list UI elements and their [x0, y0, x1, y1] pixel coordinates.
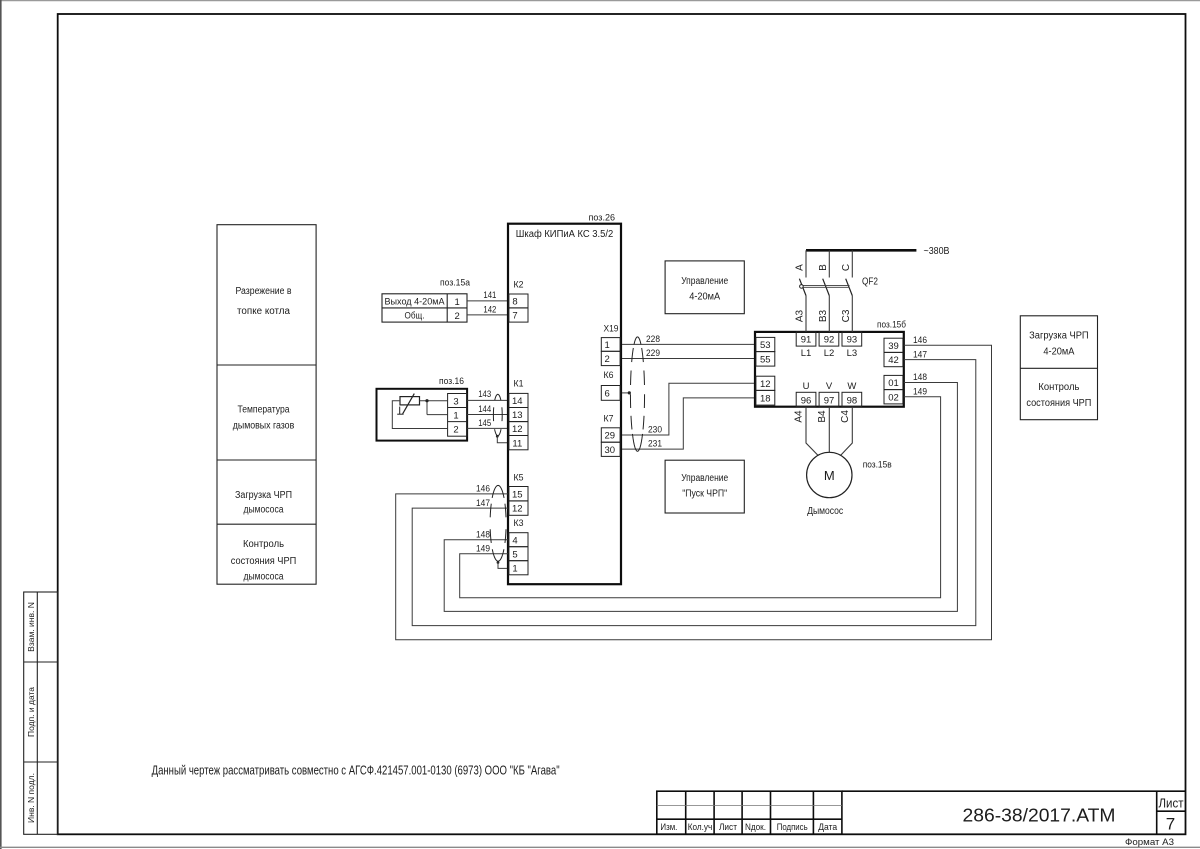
- svg-text:L1: L1: [801, 348, 812, 359]
- svg-text:149: 149: [476, 544, 490, 555]
- wire 230: [622, 383, 755, 435]
- sensor поз.16 block: [377, 389, 468, 441]
- svg-text:поз.15а: поз.15а: [440, 277, 471, 288]
- cable shield ellipse 143-145: [495, 394, 501, 400]
- svg-text:29: 29: [605, 431, 616, 442]
- wire 144: [467, 414, 507, 416]
- wire 143: [467, 399, 507, 401]
- svg-text:230: 230: [648, 425, 662, 436]
- svg-text:14: 14: [512, 396, 523, 407]
- junction dot: [425, 399, 428, 402]
- svg-text:42: 42: [888, 355, 899, 366]
- svg-text:дымососа: дымососа: [244, 572, 284, 583]
- title block main bar: [842, 791, 1186, 834]
- VFD right terminals 39 42 01 02: [884, 338, 903, 404]
- svg-text:147: 147: [476, 498, 490, 509]
- svg-text:V: V: [826, 381, 833, 392]
- page outer border: [0, 0, 1200, 2]
- wire 229: [622, 358, 755, 360]
- svg-text:В3: В3: [818, 309, 829, 322]
- svg-text:Изм.: Изм.: [660, 822, 677, 832]
- svg-text:Взам. инв. N: Взам. инв. N: [26, 602, 36, 652]
- VFD bottom terminals 96 97 98: [796, 392, 862, 406]
- svg-text:~380В: ~380В: [924, 246, 950, 257]
- cable shield ellipse 146-149: [492, 485, 504, 498]
- svg-text:L3: L3: [847, 348, 858, 359]
- VFD поз.15б box: [755, 332, 904, 407]
- svg-text:93: 93: [847, 335, 858, 346]
- svg-text:143: 143: [478, 389, 491, 400]
- svg-text:С4: С4: [840, 410, 851, 423]
- shield drain from K6-6: [622, 392, 629, 394]
- svg-text:Х19: Х19: [604, 323, 619, 334]
- svg-text:147: 147: [913, 349, 927, 360]
- RTD t mark: [397, 407, 403, 415]
- svg-text:Данный чертеж рассматривать со: Данный чертеж рассматривать совместно с …: [152, 764, 560, 778]
- svg-text:Загрузка ЧРП: Загрузка ЧРП: [1029, 331, 1089, 342]
- svg-text:53: 53: [760, 340, 771, 351]
- wire 145: [467, 427, 507, 429]
- box Управление Пуск ЧРП: [665, 460, 744, 513]
- svg-text:К6: К6: [604, 370, 614, 381]
- motor M circle: [807, 452, 852, 497]
- VFD top terminals 91 92 93: [796, 332, 862, 346]
- svg-text:142: 142: [483, 304, 496, 315]
- svg-text:Контроль: Контроль: [1038, 382, 1079, 393]
- svg-text:С3: С3: [841, 309, 852, 322]
- svg-text:Загрузка ЧРП: Загрузка ЧРП: [235, 490, 292, 501]
- svg-text:145: 145: [478, 418, 491, 429]
- svg-text:Инв. N подл.: Инв. N подл.: [26, 773, 36, 823]
- svg-text:97: 97: [824, 395, 835, 406]
- svg-text:К7: К7: [604, 413, 614, 424]
- cabinet Шкаф КИПиА КС 3.5/2: [508, 224, 621, 585]
- signal box column: [217, 225, 316, 585]
- svg-text:Температура: Температура: [238, 404, 290, 415]
- svg-text:топке котла: топке котла: [237, 306, 290, 317]
- shield drain to K3-1: [497, 561, 500, 564]
- svg-text:М: М: [824, 468, 835, 483]
- svg-text:Выход 4-20мА: Выход 4-20мА: [385, 297, 446, 308]
- svg-text:141: 141: [483, 290, 496, 301]
- svg-text:Лист: Лист: [1159, 796, 1184, 811]
- svg-text:1: 1: [605, 340, 610, 351]
- svg-text:А: А: [795, 264, 806, 271]
- svg-text:К5: К5: [514, 472, 524, 483]
- svg-text:Управление: Управление: [681, 276, 728, 287]
- svg-text:Управление: Управление: [681, 473, 728, 484]
- svg-text:149: 149: [913, 386, 927, 397]
- svg-text:231: 231: [648, 439, 662, 450]
- svg-text:поз.26: поз.26: [589, 213, 616, 224]
- svg-text:11: 11: [512, 438, 522, 449]
- signal box divider 1: [217, 364, 316, 366]
- svg-text:4-20мА: 4-20мА: [689, 292, 720, 303]
- wire 149: [460, 397, 941, 598]
- sidebar column boxes: [24, 592, 58, 834]
- svg-text:01: 01: [888, 378, 899, 389]
- svg-text:Шкаф КИПиА КС 3.5/2: Шкаф КИПиА КС 3.5/2: [516, 228, 614, 240]
- svg-text:Кол.уч: Кол.уч: [688, 822, 713, 832]
- RTD terminal strip: [448, 394, 468, 437]
- svg-text:13: 13: [512, 410, 523, 421]
- motor feeder wires: [806, 407, 852, 456]
- svg-text:4: 4: [512, 535, 517, 546]
- svg-text:92: 92: [824, 335, 835, 346]
- svg-text:1: 1: [454, 297, 459, 308]
- svg-text:поз.15в: поз.15в: [863, 460, 892, 471]
- title block table: [657, 791, 842, 834]
- svg-text:поз.15б: поз.15б: [877, 319, 906, 330]
- svg-text:148: 148: [913, 372, 927, 383]
- breaker QF2 blades: [799, 279, 852, 296]
- svg-text:U: U: [803, 381, 810, 392]
- svg-text:Nдок.: Nдок.: [745, 822, 766, 832]
- svg-text:Контроль: Контроль: [243, 539, 284, 550]
- svg-text:286-38/2017.АТМ: 286-38/2017.АТМ: [963, 805, 1116, 826]
- cable shield ellipse 228-231: [634, 337, 641, 345]
- svg-text:А3: А3: [795, 309, 806, 322]
- svg-text:Дата: Дата: [818, 822, 837, 832]
- svg-text:Дымосос: Дымосос: [807, 506, 843, 517]
- svg-text:"Пуск ЧРП": "Пуск ЧРП": [682, 489, 727, 500]
- transmitter поз.15а block: [382, 294, 467, 322]
- svg-text:55: 55: [760, 354, 771, 365]
- box Загрузка ЧРП / Контроль состояния ЧРП: [1020, 316, 1097, 420]
- wire 147: [412, 360, 976, 626]
- svg-text:5: 5: [512, 549, 517, 560]
- svg-text:С: С: [841, 264, 852, 271]
- svg-text:L2: L2: [824, 348, 835, 359]
- wire 142: [467, 314, 507, 316]
- wire 228: [622, 343, 755, 345]
- svg-text:144: 144: [478, 404, 491, 415]
- signal box divider 2: [217, 459, 316, 461]
- svg-text:W: W: [847, 381, 856, 392]
- svg-text:2: 2: [454, 311, 459, 322]
- svg-text:15: 15: [512, 489, 523, 500]
- svg-text:148: 148: [476, 530, 490, 541]
- svg-text:7: 7: [512, 311, 517, 322]
- svg-text:1: 1: [512, 563, 517, 574]
- svg-text:12: 12: [512, 424, 523, 435]
- RTD diagonal stroke: [403, 394, 415, 414]
- svg-text:В: В: [818, 264, 829, 271]
- RTD internal wires: [392, 401, 447, 429]
- svg-text:дымовых газов: дымовых газов: [233, 420, 295, 431]
- svg-text:А4: А4: [794, 410, 805, 423]
- QF2 linkage bar: [801, 285, 850, 287]
- box Управление 4-20мА: [665, 261, 744, 314]
- svg-text:Подп. и дата: Подп. и дата: [26, 687, 36, 737]
- signal box divider 3: [217, 523, 316, 525]
- svg-text:поз.16: поз.16: [439, 376, 464, 387]
- svg-text:Подпись: Подпись: [777, 822, 808, 832]
- shield drain to K1-11: [496, 435, 499, 438]
- svg-text:228: 228: [646, 334, 660, 345]
- svg-text:Разрежение в: Разрежение в: [236, 286, 292, 297]
- wire 231: [622, 398, 755, 449]
- svg-text:229: 229: [646, 348, 660, 359]
- svg-text:состояния ЧРП: состояния ЧРП: [231, 556, 297, 567]
- svg-text:98: 98: [847, 395, 858, 406]
- svg-text:91: 91: [801, 335, 812, 346]
- svg-text:12: 12: [512, 504, 523, 515]
- svg-text:дымососа: дымососа: [244, 505, 284, 516]
- svg-text:30: 30: [605, 445, 616, 456]
- RTD resistor body: [400, 397, 420, 405]
- svg-text:7: 7: [1166, 815, 1175, 834]
- svg-text:39: 39: [888, 341, 899, 352]
- svg-text:Общ.: Общ.: [405, 311, 425, 322]
- VFD left terminals 53 55 12 18: [756, 337, 775, 405]
- svg-text:В4: В4: [817, 410, 828, 423]
- svg-text:состояния ЧРП: состояния ЧРП: [1026, 398, 1091, 409]
- svg-text:К1: К1: [514, 378, 524, 389]
- svg-text:02: 02: [888, 392, 899, 403]
- svg-text:К3: К3: [514, 518, 524, 529]
- svg-text:4-20мА: 4-20мА: [1043, 346, 1074, 357]
- bus ~380V: [806, 249, 916, 252]
- svg-text:8: 8: [512, 297, 517, 308]
- QF2 incoming phase lines: [806, 250, 852, 277]
- wire 146: [396, 345, 992, 640]
- svg-text:18: 18: [760, 393, 771, 404]
- svg-text:2: 2: [453, 425, 458, 436]
- title block thin row line: [657, 805, 842, 807]
- svg-text:6: 6: [605, 389, 610, 400]
- svg-text:1: 1: [453, 411, 458, 422]
- wire 148: [444, 383, 957, 612]
- svg-text:146: 146: [476, 484, 490, 495]
- svg-text:К2: К2: [514, 280, 524, 291]
- svg-text:QF2: QF2: [862, 276, 878, 287]
- svg-text:96: 96: [801, 395, 812, 406]
- QF2 outgoing phase lines: [806, 296, 852, 332]
- svg-text:Лист: Лист: [719, 822, 737, 832]
- svg-text:12: 12: [760, 379, 771, 390]
- wire 141: [467, 300, 507, 302]
- svg-text:3: 3: [453, 396, 458, 407]
- svg-text:Формат А3: Формат А3: [1125, 837, 1174, 847]
- svg-text:2: 2: [605, 354, 610, 365]
- svg-text:146: 146: [913, 335, 927, 346]
